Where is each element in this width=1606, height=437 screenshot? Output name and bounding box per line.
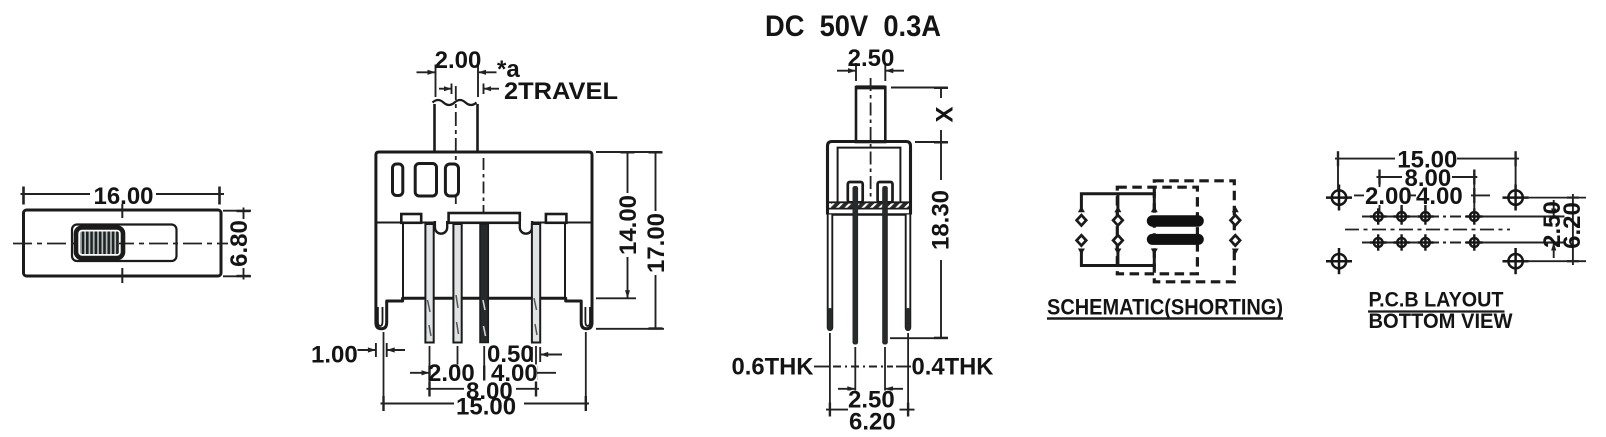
step vertical left — [402, 223, 404, 299]
base tab right — [546, 214, 567, 223]
pin hole r2c3 — [1417, 234, 1433, 250]
dimension 16.00 — [21, 183, 225, 210]
contact housing left — [848, 182, 863, 202]
actuator stem (side view) — [856, 87, 885, 142]
svg-text:0.6THK: 0.6THK — [732, 354, 815, 381]
dimension 6.20 (pcb corner rows) — [1559, 194, 1586, 265]
svg-text:SCHEMATIC(SHORTING): SCHEMATIC(SHORTING) — [1047, 295, 1283, 320]
dimension 2.00 (actuator width) — [417, 47, 497, 97]
svg-text:X: X — [931, 106, 958, 122]
label 0.4THK with leader — [896, 354, 994, 381]
contact arrows column 4 — [1232, 206, 1239, 255]
contact arrows column 3 — [1151, 206, 1158, 255]
dimension 17.00 — [596, 152, 670, 329]
main horizontal centerline — [1345, 229, 1510, 231]
horizontal centerline — [13, 243, 229, 245]
svg-text:16.00: 16.00 — [93, 183, 153, 210]
pin hole r1c1 — [1370, 208, 1386, 224]
svg-text:0.4THK: 0.4THK — [912, 354, 995, 381]
shorting bar top — [1147, 215, 1204, 227]
vertical centerline ticks — [121, 203, 123, 283]
pin right (side view, 0.4THK) — [882, 186, 888, 345]
svg-text:2TRAVEL: 2TRAVEL — [504, 78, 618, 105]
svg-text:6.20: 6.20 — [1559, 202, 1586, 249]
corner hole top-right — [1503, 185, 1529, 211]
corner hole bottom-right — [1503, 248, 1529, 274]
extension lines right (pcb) — [1524, 198, 1586, 262]
leader centerline between legs — [833, 366, 893, 368]
pin hole r2c4 — [1466, 234, 1482, 250]
pin 3 (center, shaded) — [480, 224, 488, 343]
vent hole 2 — [415, 164, 436, 197]
terminal diamond c4 bottom — [1231, 235, 1241, 245]
svg-text:6.20: 6.20 — [849, 409, 896, 436]
dimension 18.30 — [890, 142, 954, 338]
dimension 4.00 (pin pitch) — [484, 360, 556, 387]
slider track recess — [72, 225, 177, 262]
contact housing right — [878, 182, 893, 202]
svg-text:DC 50V 0.3A: DC 50V 0.3A — [765, 10, 941, 43]
switch body outline (top view) — [24, 210, 222, 276]
pin left (side view, 0.6THK) — [853, 186, 859, 345]
knurled slider knob — [76, 228, 123, 259]
dimension 2.50 (pcb rows) — [1539, 200, 1566, 258]
body vertical centerline — [483, 158, 485, 222]
pin hole r1c3 — [1417, 208, 1433, 224]
terminal diamond c1 top — [1077, 215, 1087, 225]
pin 4 — [532, 224, 540, 343]
svg-text:4.00: 4.00 — [1416, 183, 1463, 210]
pole 2 stub bottom — [1116, 249, 1119, 266]
row centerline upper — [1362, 216, 1565, 218]
svg-text:BOTTOM VIEW: BOTTOM VIEW — [1369, 310, 1513, 333]
actuator centerline — [455, 86, 457, 208]
contact base hatched band — [828, 202, 911, 214]
vent hole 3 — [445, 164, 458, 196]
dimension 14.00 — [596, 152, 661, 298]
shorting bar bottom — [1147, 234, 1204, 245]
dimension 8.00 (pcb) — [1377, 165, 1478, 212]
terminal diamond c2 top — [1113, 215, 1123, 225]
svg-text:2.00: 2.00 — [1365, 183, 1412, 210]
extension lines below side view — [830, 333, 908, 415]
terminal diamond c2 bottom — [1113, 235, 1123, 245]
step vertical right — [564, 223, 566, 299]
label 2TRAVEL — [504, 78, 618, 105]
travel dimension ticks — [439, 84, 499, 95]
dimension 15.00 — [381, 394, 590, 421]
corner hole top-left — [1326, 185, 1352, 211]
dimension 15.00 (pcb) — [1335, 147, 1519, 191]
dimension 8.00 — [427, 378, 540, 405]
dimension 2.00 (pin pitch) — [410, 360, 475, 387]
pin hole r1c4 — [1466, 208, 1482, 224]
rating text DC 50V 0.3A — [765, 10, 941, 43]
pcb layout title — [1368, 289, 1513, 334]
contact arrows column 2 — [1114, 206, 1121, 255]
label *a — [497, 56, 520, 83]
leg slot right — [585, 307, 590, 326]
contact base plate line — [377, 222, 591, 224]
mount leg right (side view) — [906, 215, 911, 331]
actuator stem with break line (front view) — [433, 100, 478, 152]
bottom bus wire — [1081, 249, 1154, 266]
dimension 6.20 (leg span, side bottom) — [826, 403, 915, 436]
top bus wire — [1081, 194, 1154, 212]
base tab center — [449, 213, 520, 223]
label 0.6THK with leader — [732, 354, 831, 381]
svg-text:17.00: 17.00 — [643, 213, 670, 273]
dimension 2.50 (pin pitch, side bottom) — [838, 386, 903, 413]
rivet notch left — [435, 221, 447, 234]
svg-text:2.50: 2.50 — [848, 45, 895, 72]
body frame outer (side view) — [828, 142, 911, 215]
contact arrows column 1 — [1078, 206, 1085, 255]
svg-text:18.30: 18.30 — [927, 190, 954, 250]
dimension 0.50 (pin thickness) — [487, 341, 562, 368]
terminal diamond c1 bottom — [1077, 235, 1087, 245]
base tab left — [401, 214, 421, 223]
dimension 2.50 (actuator, side) — [837, 45, 904, 81]
svg-text:P.C.B LAYOUT: P.C.B LAYOUT — [1369, 289, 1504, 312]
mount leg left (side view) — [828, 215, 833, 331]
pin hole r2c1 — [1370, 234, 1386, 250]
svg-text:15.00: 15.00 — [456, 394, 516, 421]
pin 1 — [425, 224, 433, 343]
vent hole 1 — [393, 164, 403, 196]
terminal diamond c4 top — [1231, 215, 1241, 225]
corner hole bottom-left — [1326, 248, 1352, 274]
dimension X — [891, 88, 958, 143]
dimension 1.00 (leg width) — [311, 342, 405, 369]
rivet notch right — [520, 221, 532, 234]
body frame inner wall — [838, 148, 901, 203]
pin hole r1c2 — [1393, 208, 1409, 224]
svg-text:1.00: 1.00 — [311, 342, 358, 369]
slider position box (dashed, position A) — [1117, 187, 1197, 274]
svg-text:6.80: 6.80 — [226, 220, 253, 267]
svg-text:14.00: 14.00 — [615, 195, 642, 255]
schematic title — [1047, 295, 1283, 320]
leg slot left — [378, 307, 383, 326]
pin hole r2c2 — [1393, 234, 1409, 250]
pole 2 stub top — [1116, 194, 1119, 212]
slider position box (dashed, position B) — [1154, 181, 1234, 282]
svg-text:2.00: 2.00 — [435, 47, 482, 74]
extension lines below pins — [384, 332, 586, 408]
dimension 6.80 — [223, 208, 253, 280]
pin 2 — [453, 224, 461, 343]
switch body outline (front view) — [376, 152, 592, 329]
actuator centerline (side) — [870, 78, 872, 198]
dimension 2.00 / 4.00 (pcb) — [1354, 183, 1490, 212]
row centerline lower — [1362, 242, 1565, 244]
